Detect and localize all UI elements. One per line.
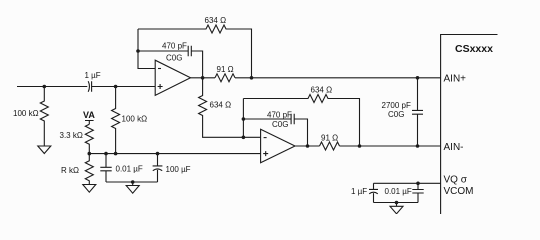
svg-text:1 µF: 1 µF [85, 71, 101, 80]
capacitor 470 pF C0G (U2 feedback) [243, 114, 307, 146]
label 1 uF (input coupling) [85, 71, 101, 80]
pin VQ [444, 175, 468, 186]
resistor 100 kOhm (input to ground) [40, 87, 48, 147]
capacitor 1 uF (VQ decoupling, polarized) [369, 183, 378, 202]
capacitor 470 pF C0G (U1 feedback) [138, 46, 203, 78]
svg-text:0.01 µF: 0.01 µF [116, 165, 143, 174]
wire: U2 output to 91 Ohm [295, 145, 320, 147]
svg-text:100 µF: 100 µF [166, 165, 191, 174]
label C0G (U2 feedback) [272, 120, 288, 129]
node: junction 2700 pF / AIN+ [416, 76, 420, 80]
node: junction 2700 pF / AIN- [416, 144, 420, 148]
label 100 kOhm (bias resistor) [122, 114, 148, 123]
node: junction bias bus / 100k bias resistor [114, 152, 118, 156]
node: junction U2 - input / feedback [242, 136, 246, 140]
resistor 634 Ohm (U2 feedback) [243, 95, 359, 147]
ground (R kOhm) [83, 185, 96, 193]
label 634 Ohm (U2 feedback) [311, 86, 333, 95]
label 91 Ohm (AIN-) [321, 133, 338, 142]
resistor 3.3 kOhm [85, 124, 93, 153]
node: VA divider midpoint on bias bus [88, 152, 92, 156]
svg-text:C0G: C0G [272, 120, 288, 129]
svg-text:VQ σ: VQ σ [444, 175, 468, 186]
svg-text:AIN+: AIN+ [444, 73, 467, 84]
ground (input resistor) [38, 146, 51, 154]
node: U2 output junction [306, 144, 310, 148]
svg-text:634 Ω: 634 Ω [205, 16, 227, 25]
resistor 91 Ohm (AIN- series) [320, 142, 340, 150]
resistor 634 Ohm (U1 out to U2 - input) [199, 78, 261, 138]
node: junction bias bus / 100 uF [156, 152, 160, 156]
svg-text:634 Ω: 634 Ω [311, 86, 333, 95]
node: junction feedback / AIN+ line [250, 76, 254, 80]
node: junction VQ net / 0.01 uF [416, 182, 420, 186]
pin VCOM [444, 186, 474, 197]
label 0.01 uF (bias) [116, 165, 143, 174]
capacitor 1 uF (input coupling) [88, 81, 91, 92]
svg-text:3.3 kΩ: 3.3 kΩ [60, 131, 83, 140]
ground (bias decoupling) [126, 182, 139, 193]
label 470 pF (U1 feedback) [162, 41, 187, 50]
capacitor 100 uF (bias decoupling, polarized) [153, 154, 163, 182]
svg-text:R kΩ: R kΩ [61, 166, 79, 175]
svg-text:VA: VA [83, 110, 95, 120]
op-amp U2 [261, 129, 295, 162]
label 100 uF [166, 165, 191, 174]
node: junction of input line and 100k bias resistor [114, 85, 118, 89]
label 634 Ohm (U1 feedback) [205, 16, 227, 25]
wire: bias bus to op-amp U2 + input [89, 153, 260, 155]
wire: input line left segment [17, 86, 87, 88]
svg-text:1 µF: 1 µF [351, 187, 367, 196]
svg-text:VCOM: VCOM [444, 186, 474, 197]
pin AIN+ [444, 73, 467, 84]
wire: AIN- line to chip [340, 145, 441, 147]
svg-text:634 Ω: 634 Ω [210, 100, 232, 109]
label 2700 pF [382, 101, 411, 110]
label 470 pF (U2 feedback) [267, 110, 292, 119]
svg-text:91 Ω: 91 Ω [321, 133, 338, 142]
pin AIN- [444, 142, 464, 153]
wire: U2 feedback riser [242, 99, 244, 138]
node: junction feedback riser / 470 pF [242, 117, 246, 121]
svg-text:C0G: C0G [166, 53, 182, 62]
svg-text:CSxxxx: CSxxxx [455, 43, 493, 55]
label 91 Ohm (AIN+) [217, 65, 234, 74]
capacitor 2700 pF C0G (across AIN+/AIN-) [412, 78, 423, 146]
label C0G (U1 feedback) [166, 53, 182, 62]
label 1 uF (VQ) [351, 187, 367, 196]
svg-text:C0G: C0G [388, 110, 404, 119]
capacitor 0.01 uF (VQ decoupling) [412, 183, 423, 202]
ground (VQ decoupling) [390, 203, 403, 214]
wire: VQ decoupling bottom rail [374, 202, 419, 204]
wire: AIN+ line to chip [235, 77, 441, 79]
resistor R kOhm [85, 154, 93, 185]
wire: U1 inverting input net [138, 29, 155, 69]
node: junction bias bus / 0.01 uF [104, 152, 108, 156]
IC U3 CSxxxx outline [441, 35, 498, 215]
resistor 100 kOhm (bias) [112, 87, 120, 154]
svg-text:AIN-: AIN- [444, 142, 464, 153]
svg-text:470 pF: 470 pF [162, 41, 187, 50]
label 634 Ohm (interstage) [210, 100, 232, 109]
node: input junction at 100k input resistor [43, 85, 47, 89]
label 3.3 kOhm [60, 131, 83, 140]
node: junction on U1 - input (470 pF tap) [136, 49, 140, 53]
label R kOhm [61, 166, 79, 175]
svg-text:100 kΩ: 100 kΩ [122, 114, 148, 123]
svg-text:100 kΩ: 100 kΩ [13, 109, 39, 118]
node: junction U2 feedback / AIN- line [358, 144, 362, 148]
resistor 91 Ohm (AIN+ series) [215, 74, 235, 82]
op-amp U1 [155, 60, 190, 95]
wire: U1 output to AIN+ pin [191, 77, 216, 79]
svg-text:91 Ω: 91 Ω [217, 65, 234, 74]
label 100 kOhm (input resistor) [13, 109, 39, 118]
node: junction VQ rail / ground [395, 201, 399, 205]
label 0.01 uF (VQ) [385, 187, 412, 196]
supply VA terminal [85, 121, 94, 125]
label CSxxxx [455, 43, 493, 55]
svg-text:0.01 µF: 0.01 µF [385, 187, 412, 196]
label C0G (2700 pF) [388, 110, 404, 119]
wire: VQ/VCOM pin net [374, 182, 441, 184]
svg-text:470 pF: 470 pF [267, 110, 292, 119]
wire: bias decoupling bottom rail [106, 181, 158, 183]
label VA [83, 110, 95, 120]
resistor 634 Ohm (U1 feedback) [138, 25, 252, 78]
node: junction bottom rail / ground [131, 180, 135, 184]
wire: input line right segment to op-amp U1 + input [92, 86, 156, 88]
svg-text:2700 pF: 2700 pF [382, 101, 411, 110]
node: U1 output junction [201, 76, 205, 80]
capacitor 0.01 uF (bias decoupling) [100, 154, 111, 182]
